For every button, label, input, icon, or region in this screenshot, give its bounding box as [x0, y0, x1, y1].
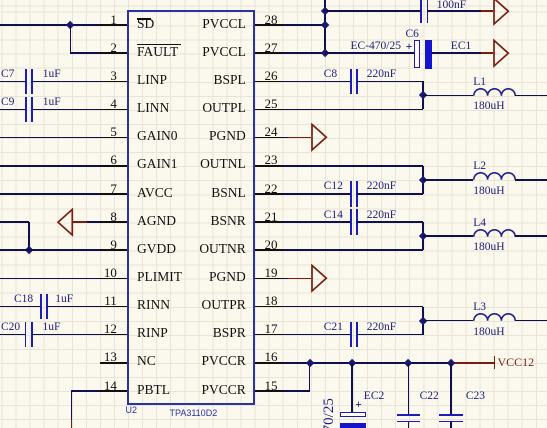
- pin name PBTL: [137, 383, 170, 397]
- inductor L4 label: [473, 217, 486, 229]
- wire PVCCR pin16 rail: [282, 362, 455, 364]
- wire OUT row L1: [282, 109, 423, 111]
- capacitor C14 label: [324, 209, 343, 221]
- capacitor EC2 positive plate: [340, 412, 366, 416]
- pin name OUTPR: [202, 298, 246, 312]
- wire vertical L4 join: [422, 222, 424, 250]
- pin number 2: [110, 41, 117, 54]
- wire GVDD: [0, 249, 100, 251]
- junction node rail top: [321, 7, 330, 16]
- pin 13 stub: [100, 362, 128, 364]
- wire C12 BS row left: [282, 193, 351, 195]
- pin number 7: [110, 182, 117, 195]
- inductor L4: [473, 228, 517, 238]
- pin number 19: [265, 266, 278, 279]
- pin name PVCCR: [202, 354, 246, 368]
- port AGND stub: [73, 221, 87, 223]
- junction node L1: [419, 91, 428, 100]
- inductor L3 label: [473, 301, 486, 313]
- capacitor C6 label: [406, 28, 419, 40]
- pin 18 stub: [255, 306, 283, 308]
- pin 7 stub: [100, 193, 128, 195]
- wire vertical L3 join: [422, 307, 424, 335]
- pin name FAULT (active low): [137, 45, 178, 59]
- wire branch vertical to GVDD: [28, 222, 30, 250]
- wire PBTL to left: [71, 390, 99, 392]
- pin name PLIMIT: [137, 270, 182, 284]
- capacitor C9 label: [1, 96, 14, 108]
- capacitor C9: [25, 97, 27, 122]
- capacitor C9 value 1uF: [43, 96, 61, 108]
- pin name GVDD: [137, 242, 176, 256]
- pin 14 stub: [100, 390, 128, 392]
- junction node GVDD: [25, 246, 34, 255]
- capacitor C22 label: [420, 390, 439, 402]
- wire pin28 PVCCL: [282, 24, 325, 26]
- pin 28 stub: [255, 24, 283, 26]
- capacitor C21 value 220nF: [367, 321, 396, 333]
- capacitor C6 value EC-470/25: [351, 40, 401, 52]
- capacitor C7 wire right: [33, 81, 99, 83]
- pin number 10: [104, 266, 117, 279]
- inductor L3: [473, 312, 517, 322]
- capacitor C8 value 220nF: [367, 68, 396, 80]
- wire C14 BS row right: [357, 221, 424, 223]
- capacitor C23 top plate: [439, 414, 462, 416]
- pin number 5: [110, 125, 117, 138]
- junction node L4: [419, 232, 428, 241]
- capacitor C22 top plate: [397, 414, 420, 416]
- pin number 6: [110, 153, 117, 166]
- junction node L2: [419, 175, 428, 184]
- capacitor C22 bottom plate: [397, 421, 420, 423]
- capacitor C23 wire tail: [450, 422, 452, 428]
- capacitor C22 wire down: [408, 363, 410, 415]
- wire OUT row L4: [282, 249, 423, 251]
- pin name OUTPL: [202, 101, 246, 115]
- pin number 14: [104, 379, 117, 392]
- wire pin15 to rail: [282, 390, 310, 392]
- pin 23 stub: [255, 165, 283, 167]
- wire C12 BS row right: [357, 193, 424, 195]
- capacitor C14 value 220nF: [367, 209, 396, 221]
- junction node EC2: [348, 358, 357, 367]
- pin name LINN: [137, 101, 169, 115]
- wire row2 to FAULT pin: [70, 52, 99, 54]
- pin number 26: [265, 69, 278, 82]
- port PGND pin19 stub: [288, 278, 311, 280]
- wire C21 BS row right: [357, 334, 424, 336]
- wire OUT row L2: [282, 165, 423, 167]
- pin name NC: [137, 354, 156, 368]
- wire PGND pin24: [282, 137, 288, 139]
- capacitor C6 negative bar: [425, 40, 432, 69]
- wire C14 BS row left: [282, 221, 351, 223]
- pin 2 stub: [100, 52, 128, 54]
- pin number 15: [265, 379, 278, 392]
- port AGND arrow (left): [57, 208, 74, 237]
- pin number 8: [110, 210, 117, 223]
- pin 17 stub: [255, 334, 283, 336]
- capacitor C18 wire right: [47, 306, 100, 308]
- wire GAIN1: [0, 165, 100, 167]
- wire PGND pin19: [282, 278, 288, 280]
- pin name LINP: [137, 73, 167, 87]
- port PGND pin24 stub: [288, 137, 311, 139]
- inductor L3 value 180uH: [473, 326, 504, 338]
- capacitor C18 label: [14, 293, 33, 305]
- pin 9 stub: [100, 249, 128, 251]
- IC value TPA3110D2: [170, 408, 218, 418]
- wire L2 to edge: [515, 179, 547, 181]
- wire to inductor L1: [423, 95, 473, 97]
- pin number 11: [104, 294, 117, 307]
- wire PBTL vertical down: [71, 391, 73, 419]
- capacitor C12 value 220nF: [367, 180, 396, 192]
- pin name OUTNR: [199, 242, 246, 256]
- pin 20 stub: [255, 249, 283, 251]
- wire C8 BS row left: [282, 81, 351, 83]
- pin name PVCCR: [202, 383, 246, 397]
- wire vertical L1 join: [422, 81, 424, 109]
- capacitor EC2 wire down: [351, 363, 353, 412]
- wire 100nF left: [325, 10, 421, 12]
- pin 25 stub: [255, 109, 283, 111]
- wire AVCC: [0, 193, 100, 195]
- port PGND arrow pin24: [311, 123, 328, 152]
- capacitor C9 wire right: [33, 109, 99, 111]
- port PGND arrow pin19: [311, 264, 328, 293]
- capacitor C21: [350, 322, 352, 347]
- pin 19 stub: [255, 278, 283, 280]
- junction node pin15: [305, 358, 314, 367]
- capacitor C6 plus sign: [406, 41, 413, 53]
- pin number 9: [110, 238, 117, 251]
- pin name SD (active low): [137, 17, 154, 31]
- capacitor C7: [25, 69, 27, 94]
- capacitor C8: [350, 69, 352, 94]
- pin name BSNL: [211, 186, 246, 200]
- pin 10 stub: [100, 278, 128, 280]
- wire PVCC vertical rail: [324, 0, 326, 53]
- pin name RINP: [137, 326, 168, 340]
- junction node L3: [419, 316, 428, 325]
- pin 3 stub: [100, 81, 128, 83]
- power port VCC12 stub: [455, 362, 495, 364]
- pin name OUTNL: [200, 157, 246, 171]
- pin name BSPR: [213, 326, 246, 340]
- wire pin15 vertical: [309, 363, 311, 391]
- wire C6 left: [325, 52, 414, 54]
- capacitor C7 value 1uF: [43, 68, 61, 80]
- capacitor C23 bottom plate: [439, 421, 462, 423]
- pin number 17: [265, 322, 278, 335]
- pin number 1: [110, 13, 117, 26]
- pin number 27: [265, 41, 278, 54]
- wire C21 BS row left: [282, 334, 351, 336]
- capacitor C8 label: [324, 68, 337, 80]
- pin 4 stub: [100, 109, 128, 111]
- port arrow EC1: [493, 39, 510, 68]
- wire 100nF port stub: [481, 10, 494, 12]
- power port VCC12 bar: [494, 356, 496, 369]
- pin number 13: [104, 350, 117, 363]
- junction node rail pin27: [321, 49, 330, 58]
- capacitor EC2 label: [364, 390, 384, 402]
- pin 24 stub: [255, 137, 283, 139]
- wire net SD row1 from left: [0, 24, 100, 26]
- pin number 21: [265, 210, 278, 223]
- wire PLIMIT: [0, 278, 100, 280]
- pin 11 stub: [100, 306, 128, 308]
- wire C6 right: [432, 52, 481, 54]
- pin 8 stub: [100, 221, 128, 223]
- capacitor C12: [350, 181, 352, 206]
- capacitor C18 value 1uF: [55, 293, 73, 305]
- inductor L2 value 180uH: [473, 185, 504, 197]
- pin number 20: [265, 238, 278, 251]
- pin name AGND: [137, 214, 176, 228]
- wire vertical row1 to row2: [70, 25, 72, 53]
- pin 16 stub: [255, 362, 283, 364]
- wire branch left at row8 level: [0, 221, 29, 223]
- port EC1 label: [451, 40, 471, 52]
- power port VCC12 label: [498, 356, 535, 369]
- pin 27 stub: [255, 52, 283, 54]
- IC refdes U2: [126, 405, 138, 415]
- junction node C22: [404, 358, 413, 367]
- capacitor C21 label: [324, 321, 343, 333]
- pin name RINN: [137, 298, 170, 312]
- pin name BSPL: [214, 73, 246, 87]
- pin 26 stub: [255, 81, 283, 83]
- capacitor EC2 plus sign: [355, 399, 362, 411]
- pin 15 stub: [255, 390, 283, 392]
- pin 1 stub: [100, 24, 128, 26]
- pin name AVCC: [137, 186, 173, 200]
- capacitor C23 wire down: [450, 363, 452, 415]
- capacitor C7 label: [1, 68, 14, 80]
- capacitor C6 positive plate: [414, 40, 420, 68]
- wire AGND to pin: [87, 221, 100, 223]
- capacitor C20 wire left: [0, 334, 26, 336]
- pin name PGND: [209, 270, 246, 284]
- pin number 24: [265, 125, 278, 138]
- pin 12 stub: [100, 334, 128, 336]
- wire L4 to edge: [515, 235, 547, 237]
- junction node rail pin28: [321, 21, 330, 30]
- pin name GAIN1: [137, 157, 178, 171]
- capacitor EC2 rotated value EC-470/25: [322, 398, 336, 428]
- wire 100nF right: [427, 10, 480, 12]
- inductor L4 value 180uH: [473, 241, 504, 253]
- capacitor C22 wire tail: [408, 422, 410, 428]
- pin 22 stub: [255, 193, 283, 195]
- wire to inductor L4: [423, 235, 473, 237]
- inductor L1 value 180uH: [473, 100, 504, 112]
- pin number 16: [265, 350, 278, 363]
- capacitor C20: [25, 322, 27, 347]
- pin name PVCCL: [202, 45, 246, 59]
- capacitor C20 value 1uF: [43, 321, 61, 333]
- pin number 18: [265, 294, 278, 307]
- capacitor C18: [40, 294, 42, 319]
- capacitor value 100nF: [437, 0, 466, 11]
- pin number 25: [265, 97, 278, 110]
- pin name BSNR: [211, 214, 246, 228]
- pin number 12: [104, 322, 117, 335]
- inductor L2: [473, 171, 517, 181]
- wire C8 BS row right: [357, 81, 424, 83]
- junction node row1: [66, 21, 75, 30]
- wire L1 to edge: [515, 95, 547, 97]
- capacitor C23 label: [466, 390, 485, 402]
- pin name PVCCL: [202, 17, 246, 31]
- wire EC1 port stub: [481, 52, 494, 54]
- wire GAIN0: [0, 137, 100, 139]
- capacitor C20 wire right: [32, 334, 100, 336]
- wire vertical L2 join: [422, 166, 424, 194]
- capacitor C7 wire left: [0, 81, 25, 83]
- pin name GAIN0: [137, 129, 178, 143]
- pin number 4: [110, 97, 117, 110]
- pin number 22: [265, 182, 278, 195]
- wire to inductor L3: [423, 320, 473, 322]
- capacitor C9 wire left: [0, 109, 25, 111]
- wire pin27 PVCCL: [282, 52, 325, 54]
- pin number 3: [110, 69, 117, 82]
- capacitor C12 label: [324, 180, 343, 192]
- pin 5 stub: [100, 137, 128, 139]
- capacitor C18 wire left: [0, 306, 41, 308]
- capacitor 100nF: [420, 0, 422, 23]
- wire PBTL vertical maroon tail: [71, 419, 73, 428]
- pin 6 stub: [100, 165, 128, 167]
- capacitor C14: [350, 209, 352, 234]
- pin name PGND: [209, 129, 246, 143]
- capacitor C20 label: [1, 321, 20, 333]
- IC U2 TPA3110D2 body: [127, 10, 254, 404]
- pin number 23: [265, 153, 278, 166]
- pin number 28: [265, 13, 278, 26]
- inductor L2 label: [473, 160, 486, 172]
- wire OUT row L3: [282, 306, 423, 308]
- capacitor EC2 negative bar: [340, 423, 367, 428]
- pin 21 stub: [255, 221, 283, 223]
- wire to inductor L2: [423, 179, 473, 181]
- port arrow top right: [493, 0, 510, 26]
- inductor L1 label: [473, 76, 486, 88]
- junction node C23: [447, 358, 456, 367]
- inductor L1: [473, 87, 517, 97]
- wire L3 to edge: [515, 320, 547, 322]
